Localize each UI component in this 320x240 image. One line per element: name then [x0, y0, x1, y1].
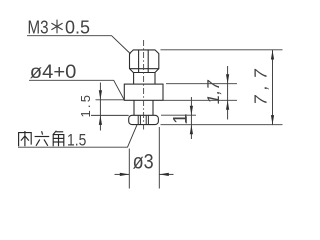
svg-text:1,7: 1,7 — [203, 78, 223, 106]
svg-text:7,7: 7,7 — [251, 61, 271, 107]
svg-text:ø3: ø3 — [133, 150, 154, 173]
svg-text:ø4+0: ø4+0 — [30, 62, 77, 83]
svg-text:1.5: 1.5 — [67, 131, 86, 150]
svg-text:0.5: 0.5 — [65, 16, 90, 37]
svg-text:1.5: 1.5 — [78, 93, 93, 118]
svg-text:1: 1 — [170, 113, 191, 124]
svg-text:M3: M3 — [28, 16, 49, 37]
